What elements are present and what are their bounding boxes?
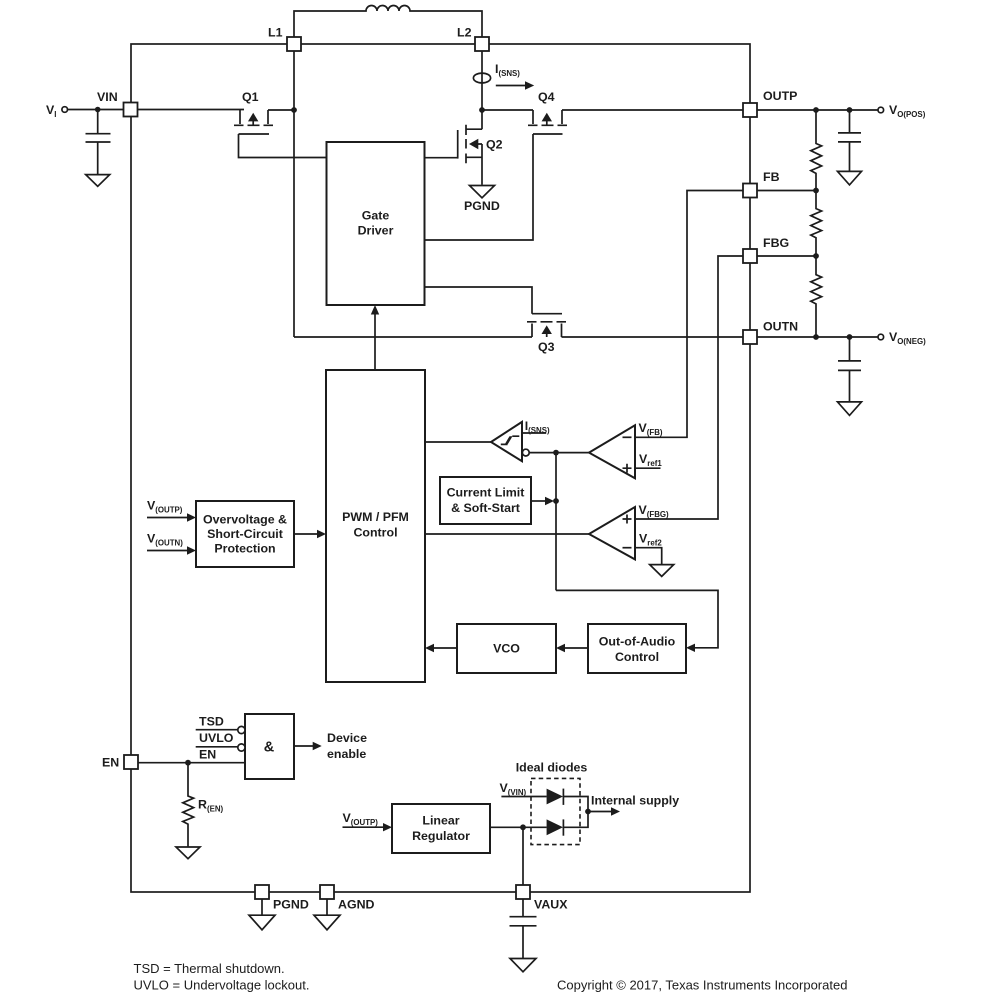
terminal Vi: [62, 107, 68, 113]
svg-text:Copyright © 2017, Texas Instru: Copyright © 2017, Texas Instruments Inco…: [557, 978, 847, 993]
pin OUTN: [743, 330, 757, 344]
svg-text:Vref2: Vref2: [639, 532, 662, 548]
svg-text:V(OUTN): V(OUTN): [147, 532, 183, 548]
svg-text:TSD = Thermal shutdown.: TSD = Thermal shutdown.: [134, 961, 285, 976]
node internal supply: [585, 809, 591, 815]
node output cap neg: [847, 334, 853, 340]
AND gate: [238, 714, 294, 779]
svg-text:Current Limit: Current Limit: [447, 486, 525, 500]
wire comparator junction down: [555, 453, 557, 591]
node input cap junction: [95, 107, 101, 113]
svg-text:VCO: VCO: [493, 642, 520, 656]
svg-text:Control: Control: [615, 650, 659, 664]
svg-text:FBG: FBG: [763, 236, 789, 250]
wire V(VIN) input: [501, 796, 546, 798]
svg-text:V(FBG): V(FBG): [639, 503, 670, 519]
arrow V(OUTP) into Overvoltage: [147, 517, 188, 519]
svg-text:FB: FB: [763, 170, 780, 184]
wire PWM to comparator: [425, 441, 491, 443]
svg-text:Overvoltage &: Overvoltage &: [203, 513, 287, 527]
wire node to Q4: [482, 109, 533, 111]
node comparator junction: [553, 450, 559, 456]
svg-text:Driver: Driver: [358, 224, 394, 238]
node OUTN divider: [813, 334, 819, 340]
ground input cap: [86, 175, 110, 187]
pin OUTP: [743, 103, 757, 117]
svg-text:OUTN: OUTN: [763, 320, 798, 334]
pin FB: [743, 184, 757, 198]
arrow I(SNS) direction: [496, 85, 527, 87]
ground PGND pin: [249, 899, 275, 930]
diode D1: [547, 789, 564, 805]
node VAUX junction: [520, 824, 526, 830]
capacitor output pos: [838, 110, 861, 171]
svg-text:OUTP: OUTP: [763, 89, 797, 103]
wire UVLO input: [196, 746, 238, 748]
current sense probe: [473, 73, 490, 83]
box Current Limit and Soft-Start: [440, 477, 531, 524]
arrow V(OUTP) into Linear Regulator: [343, 826, 385, 828]
transistor Q3: [527, 314, 566, 354]
terminal VO(NEG): [878, 334, 884, 340]
svg-text:L2: L2: [457, 26, 472, 40]
box PWM / PFM Control: [326, 370, 425, 682]
inductor L: [294, 6, 482, 39]
svg-text:PGND: PGND: [273, 898, 309, 912]
svg-text:PWM / PFM: PWM / PFM: [342, 510, 409, 524]
arrow PWM to Gate Driver: [374, 313, 376, 370]
resistor R(EN): [183, 763, 194, 847]
wire comparator output: [529, 452, 589, 454]
svg-text:Q3: Q3: [538, 340, 555, 354]
svg-text:Q2: Q2: [486, 138, 503, 152]
svg-text:I(SNS): I(SNS): [525, 419, 550, 435]
svg-text:V(VIN): V(VIN): [500, 781, 527, 797]
wire linreg output: [490, 826, 523, 828]
svg-text:Control: Control: [353, 526, 397, 540]
svg-text:V(FB): V(FB): [639, 421, 663, 437]
ground R(EN): [176, 847, 200, 859]
svg-text:Regulator: Regulator: [412, 829, 470, 843]
svg-text:enable: enable: [327, 747, 366, 761]
box Overvoltage and Short-Circuit Protection: [196, 501, 294, 567]
svg-text:&: &: [264, 740, 275, 756]
ground output cap pos: [838, 171, 862, 185]
wire TSD input: [196, 729, 238, 731]
wire V(FB) from FB pin to op-amp1: [635, 191, 743, 438]
box Gate Driver: [327, 142, 425, 305]
wire Q2 gate to Gate Driver: [425, 157, 458, 159]
pin PGND: [255, 885, 269, 899]
pin AGND: [320, 885, 334, 899]
arrow Overvoltage to PWM: [294, 533, 318, 535]
wire VAUX node down to pin: [522, 827, 524, 885]
svg-text:Protection: Protection: [214, 542, 275, 556]
wire OUTN external: [757, 336, 878, 338]
node L2 / Q2 drain: [479, 107, 485, 113]
svg-text:UVLO = Undervoltage lockout.: UVLO = Undervoltage lockout.: [134, 978, 310, 993]
wire Q3 to OUTN pin: [562, 336, 744, 338]
svg-text:Internal supply: Internal supply: [591, 794, 679, 808]
capacitor output neg: [838, 337, 861, 402]
wire comparator I(SNS) input: [522, 432, 546, 434]
wire L2 pin down: [481, 51, 483, 110]
wire op-amp2 output to PWM: [425, 533, 589, 535]
capacitor VAUX: [510, 899, 537, 959]
op-amp error amp 2: [589, 507, 635, 559]
arrow into Out-of-Audio: [686, 644, 695, 652]
svg-text:Q4: Q4: [538, 90, 555, 104]
svg-text:R(EN): R(EN): [198, 798, 224, 814]
svg-text:Gate: Gate: [362, 209, 390, 223]
pin VAUX: [516, 885, 530, 899]
wire Q3 gate to Gate Driver: [425, 287, 533, 314]
svg-text:L1: L1: [268, 26, 283, 40]
svg-text:VO(POS): VO(POS): [889, 103, 926, 119]
svg-text:VO(NEG): VO(NEG): [889, 330, 926, 346]
wire D1 to internal supply node: [563, 797, 588, 812]
svg-text:UVLO: UVLO: [199, 731, 234, 745]
svg-text:VI: VI: [46, 103, 56, 119]
box Out-of-Audio Control: [588, 624, 686, 673]
capacitor input: [86, 110, 111, 175]
svg-text:PGND: PGND: [464, 199, 500, 213]
svg-text:EN: EN: [199, 748, 216, 762]
svg-text:V(OUTP): V(OUTP): [343, 811, 379, 827]
wire VAUX node to D2: [523, 826, 547, 828]
node output cap pos: [847, 107, 853, 113]
wire switch node to Q3: [294, 336, 532, 338]
svg-text:Out-of-Audio: Out-of-Audio: [599, 635, 676, 649]
ground PGND under Q2: [470, 186, 495, 198]
ground output cap neg: [838, 402, 862, 416]
svg-text:VAUX: VAUX: [534, 898, 568, 912]
terminal VO(POS): [878, 107, 884, 113]
box VCO: [457, 624, 556, 673]
wire junction to Out-of-Audio: [556, 590, 718, 647]
arrow V(OUTN) into Overvoltage: [147, 550, 188, 552]
wire FBG pin to divider: [757, 255, 816, 257]
transistor Q4: [528, 90, 567, 134]
node FB divider: [813, 188, 819, 194]
svg-text:Device: Device: [327, 731, 367, 745]
wire V(FBG) from FBG pin to op-amp2: [635, 256, 743, 519]
IC boundary: [131, 44, 750, 892]
svg-text:AGND: AGND: [338, 898, 375, 912]
svg-text:Ideal diodes: Ideal diodes: [516, 761, 588, 775]
wire switch node down: [293, 110, 295, 337]
wire Q1 source to node: [268, 109, 294, 111]
svg-text:& Soft-Start: & Soft-Start: [451, 501, 520, 515]
resistor R2: [811, 191, 822, 257]
pin L2: [475, 37, 489, 51]
svg-text:V(OUTP): V(OUTP): [147, 499, 183, 515]
arrow OoA to VCO: [562, 647, 588, 649]
transistor Q1: [234, 90, 273, 134]
box Linear Regulator: [392, 804, 490, 853]
ground Vref2: [650, 565, 674, 577]
resistor R3: [811, 256, 822, 337]
svg-text:Short-Circuit: Short-Circuit: [207, 527, 283, 541]
pin L1: [287, 37, 301, 51]
wire Vi to VIN pin: [68, 109, 124, 111]
wire EN pin to AND gate: [138, 762, 245, 764]
arrow Device enable: [294, 745, 314, 747]
wire Vref1 stub: [635, 467, 661, 469]
pin EN: [124, 755, 138, 769]
svg-text:Vref1: Vref1: [639, 452, 662, 468]
svg-text:I(SNS): I(SNS): [495, 62, 520, 78]
node EN junction: [185, 760, 191, 766]
diode D2: [547, 819, 564, 835]
resistor R1: [811, 110, 822, 191]
node FBG divider: [813, 253, 819, 259]
svg-text:VIN: VIN: [97, 90, 118, 104]
pin FBG: [743, 249, 757, 263]
arrow Current Limit output: [531, 500, 546, 502]
arrow Internal supply: [588, 811, 612, 813]
svg-text:TSD: TSD: [199, 715, 224, 729]
svg-text:EN: EN: [102, 756, 119, 770]
ground AGND pin: [314, 899, 340, 930]
node current limit junction: [553, 498, 559, 504]
wire L1 pin down: [293, 51, 295, 110]
dashed box ideal diodes: [531, 778, 580, 844]
wire OUTP external: [757, 109, 878, 111]
svg-text:Q1: Q1: [242, 90, 259, 104]
wire D2 to internal supply node: [563, 812, 588, 828]
svg-text:Linear: Linear: [422, 814, 459, 828]
wire FB pin to divider: [757, 190, 816, 192]
wire Q1 gate to Gate Driver: [239, 134, 327, 158]
op-amp error amp 1: [589, 425, 635, 478]
wire Q4 gate to Gate Driver: [425, 134, 534, 240]
ground VAUX cap: [510, 959, 536, 972]
pin VIN: [124, 103, 138, 117]
wire Vref2 to ground: [635, 548, 662, 565]
wire Q4 to OUTP pin: [562, 109, 743, 111]
comparator I(SNS) hysteresis: [491, 422, 529, 461]
transistor Q2: [458, 110, 503, 185]
node Q1 drain / L1 switch node: [291, 107, 297, 113]
node divider top: [813, 107, 819, 113]
arrow VCO to PWM: [431, 647, 457, 649]
wire VIN to Q1: [138, 109, 245, 111]
